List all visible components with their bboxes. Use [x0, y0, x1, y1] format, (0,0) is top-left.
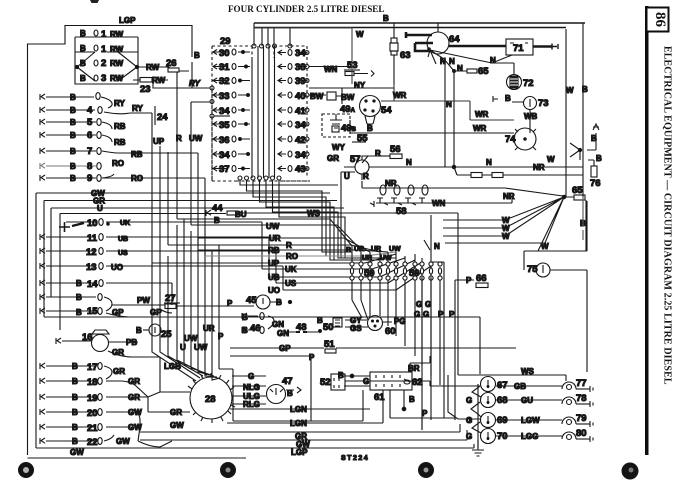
- wire WR to 74: [350, 120, 514, 133]
- svg-text:RB: RB: [114, 122, 126, 131]
- svg-text:G: G: [248, 372, 254, 381]
- svg-text:U: U: [344, 172, 350, 181]
- svg-text:59: 59: [364, 268, 375, 279]
- svg-text:UB: UB: [118, 236, 128, 243]
- svg-text:62: 62: [412, 377, 423, 388]
- wire WR upper: [381, 84, 514, 120]
- svg-text:RLG: RLG: [243, 400, 260, 409]
- connector 48: [296, 322, 307, 333]
- svg-text:GP: GP: [279, 344, 291, 353]
- fuse 53: [344, 60, 374, 77]
- wire P to 61: [390, 390, 444, 418]
- motor 74: [505, 128, 536, 150]
- svg-text:LGP: LGP: [119, 16, 136, 25]
- svg-text:B: B: [409, 395, 415, 404]
- flasher 72: [492, 63, 534, 90]
- sensor 79: [562, 413, 593, 427]
- svg-text:P: P: [438, 310, 444, 319]
- svg-text:8: 8: [87, 161, 92, 172]
- svg-text:37: 37: [219, 164, 230, 175]
- wire WS continuation: [330, 213, 458, 375]
- punch hole top partial: [90, 0, 99, 3]
- svg-text:GR: GR: [170, 408, 182, 417]
- svg-text:R: R: [346, 247, 351, 254]
- svg-text:57: 57: [350, 154, 361, 165]
- svg-text:77: 77: [576, 378, 587, 389]
- wire RY bus upper: [153, 82, 211, 88]
- terminal 15 rows GP: [40, 293, 124, 317]
- svg-text:P: P: [422, 409, 428, 418]
- svg-text:36: 36: [219, 135, 230, 146]
- svg-text:14: 14: [87, 279, 98, 290]
- lamp 46 rows: [242, 313, 289, 338]
- svg-text:ELECTRICAL EQUIPMENT — CIRCUIT: ELECTRICAL EQUIPMENT — CIRCUIT DIAGRAM 2…: [662, 46, 673, 385]
- svg-text:UW: UW: [389, 246, 401, 253]
- fuse 23: [140, 76, 166, 95]
- wire GW bus: [36, 193, 330, 448]
- svg-text:PB: PB: [126, 338, 137, 347]
- svg-text:B: B: [276, 298, 282, 307]
- svg-text:GU: GU: [521, 396, 533, 405]
- wire P lower: [230, 356, 311, 421]
- svg-text:1: 1: [101, 29, 107, 40]
- wire U bus: [51, 208, 344, 297]
- glowplugs 58: [370, 185, 430, 217]
- connector block 29 outline (dashed): [212, 46, 252, 181]
- svg-text:34: 34: [219, 106, 230, 117]
- wire GW bottom: [140, 430, 467, 447]
- wire LGN upper: [230, 408, 370, 410]
- svg-text:10: 10: [87, 218, 98, 229]
- svg-text:WS: WS: [521, 367, 535, 376]
- svg-text:66: 66: [476, 273, 487, 284]
- wire N long: [369, 166, 583, 168]
- svg-text:UR: UR: [362, 255, 372, 262]
- wire LGN lower: [227, 390, 383, 423]
- svg-text:44: 44: [212, 203, 223, 214]
- svg-text:LGB: LGB: [164, 362, 181, 371]
- svg-text:UW: UW: [266, 222, 280, 231]
- svg-text:RW: RW: [110, 30, 124, 39]
- svg-text:RO: RO: [131, 174, 143, 183]
- wire NY row: [309, 87, 330, 89]
- svg-text:13: 13: [86, 262, 97, 273]
- svg-text:65: 65: [478, 66, 489, 77]
- svg-text:P: P: [309, 353, 315, 362]
- svg-text:B: B: [80, 29, 86, 38]
- wire LGP bottom: [36, 444, 474, 448]
- wire G chain down: [422, 418, 455, 430]
- svg-text:W: W: [356, 30, 364, 39]
- svg-text:B: B: [72, 437, 78, 446]
- lamp 69: [466, 413, 508, 428]
- terminal 4 rows with RY: [40, 93, 125, 116]
- ground for lamps: [472, 440, 484, 456]
- svg-text:UO: UO: [268, 286, 280, 295]
- svg-text:WY: WY: [332, 143, 346, 152]
- wire NY: [309, 87, 358, 89]
- terminal 11 row UB: [40, 233, 415, 277]
- ignition sw 47: [232, 372, 301, 409]
- svg-text:B: B: [242, 313, 248, 322]
- svg-text:B: B: [136, 326, 142, 335]
- wire PW to fuse 27: [112, 304, 165, 306]
- connector block 34-43 outline dashed: [274, 46, 307, 181]
- connector 29 pins top: [252, 44, 292, 48]
- svg-text:W: W: [547, 155, 555, 164]
- fuse 66: [455, 273, 488, 288]
- svg-text:41: 41: [295, 106, 306, 117]
- merge GW rows: [135, 412, 160, 447]
- svg-text:WB: WB: [524, 112, 538, 121]
- svg-text:B: B: [242, 326, 248, 335]
- svg-text:G: G: [416, 300, 422, 309]
- svg-text:RW: RW: [110, 45, 124, 54]
- svg-text:G: G: [466, 396, 472, 405]
- switch 57: [344, 154, 378, 181]
- fuse 27: [164, 293, 254, 309]
- fan wires into 28: [152, 219, 220, 392]
- svg-text:52: 52: [320, 377, 331, 388]
- svg-text:N: N: [457, 64, 463, 73]
- svg-text:12: 12: [86, 247, 97, 258]
- svg-text:WN: WN: [324, 65, 338, 74]
- svg-text:N: N: [486, 158, 492, 167]
- sidebar page number box 86: [647, 8, 669, 32]
- fan junction 65-2: [445, 185, 586, 251]
- wire LGP top-left step: [28, 26, 193, 456]
- terminal 1 row a: [80, 29, 124, 40]
- lamp 70: [466, 429, 508, 444]
- svg-text:BW: BW: [310, 92, 324, 101]
- svg-text:LGP: LGP: [291, 448, 308, 457]
- wire GB: [496, 385, 562, 387]
- svg-text:RW: RW: [110, 59, 124, 68]
- wire BU row 44: [60, 203, 330, 330]
- svg-text:LGN: LGN: [290, 419, 307, 428]
- svg-text:B: B: [80, 44, 86, 53]
- unit 50: [317, 316, 342, 333]
- border bottom: [28, 457, 247, 459]
- svg-text:34: 34: [295, 120, 306, 131]
- svg-text:B: B: [505, 94, 511, 103]
- punch hole bottom 2: [220, 462, 236, 478]
- wire BW row: [309, 94, 326, 96]
- svg-text:61: 61: [374, 392, 385, 403]
- svg-text:UW: UW: [189, 134, 203, 143]
- svg-text:RB: RB: [268, 246, 280, 255]
- svg-text:7: 7: [87, 146, 92, 157]
- svg-text:B: B: [591, 134, 597, 143]
- band wire UP: [152, 254, 396, 263]
- svg-text:50: 50: [323, 322, 334, 333]
- svg-text:UW: UW: [380, 255, 392, 262]
- wire GR bottom: [140, 412, 460, 432]
- svg-text:NR: NR: [503, 192, 515, 201]
- wire B below 62: [402, 390, 415, 411]
- svg-text:76: 76: [590, 178, 601, 189]
- wires G G P P down: [422, 262, 455, 430]
- svg-text:5: 5: [87, 117, 93, 128]
- svg-text:B: B: [76, 293, 82, 302]
- svg-text:FOUR CYLINDER 2.5 LITRE DIESEL: FOUR CYLINDER 2.5 LITRE DIESEL: [228, 4, 384, 14]
- vertical labels UW UR P U: [180, 324, 224, 352]
- svg-text:86: 86: [652, 12, 668, 28]
- svg-text:G: G: [466, 416, 472, 425]
- svg-text:UR: UR: [269, 234, 281, 243]
- svg-text:WR: WR: [393, 91, 407, 100]
- wire GP long: [44, 313, 480, 374]
- terminal 1 row b: [80, 44, 124, 55]
- svg-text:79: 79: [576, 413, 587, 424]
- terminal 5 row: [40, 117, 126, 131]
- wires fan below connector 29: [240, 180, 396, 260]
- wire W vertical left: [254, 28, 352, 85]
- svg-text:B: B: [70, 131, 76, 140]
- svg-text:20: 20: [87, 408, 98, 419]
- fuse 76: [588, 160, 601, 189]
- horn 73: [493, 94, 549, 110]
- zigzag G links: [471, 384, 481, 448]
- svg-text:UK: UK: [120, 220, 130, 227]
- wire to 74 from B arrow: [587, 124, 599, 150]
- svg-text:ST224: ST224: [341, 455, 369, 462]
- relay 49A: [327, 88, 356, 115]
- terminal 19 row: [40, 393, 148, 404]
- labels P P: [438, 310, 455, 319]
- svg-text:RY: RY: [114, 99, 125, 108]
- svg-text:33: 33: [219, 91, 230, 102]
- svg-text:GN: GN: [272, 320, 284, 329]
- band wire RB: [198, 250, 388, 252]
- svg-text:RO: RO: [286, 252, 298, 261]
- svg-text:B: B: [383, 14, 389, 23]
- svg-text:RY: RY: [189, 79, 201, 88]
- band wire R: [168, 152, 380, 252]
- svg-text:UP: UP: [153, 137, 165, 146]
- labels above chains R UR UR UW: [346, 246, 401, 262]
- connector 52: [320, 374, 345, 390]
- wire N vertical: [445, 64, 454, 167]
- svg-text:59: 59: [409, 268, 420, 279]
- svg-text:B: B: [367, 124, 373, 133]
- sidebar vertical rule: [645, 6, 649, 455]
- wire GP lower with fuse 51: [230, 339, 516, 353]
- svg-text:B: B: [70, 162, 76, 171]
- svg-text:28: 28: [205, 394, 216, 405]
- connector 29 bottom pins row: [238, 176, 281, 180]
- terminal 6 row: [40, 130, 126, 147]
- punch hole bottom 1: [18, 462, 34, 478]
- terminal 17 row: [40, 362, 125, 379]
- svg-text:P: P: [227, 299, 233, 308]
- junction N: [452, 165, 455, 168]
- svg-text:23: 23: [140, 84, 151, 95]
- connector block right rows 34-43: [278, 48, 309, 175]
- svg-text:LGW: LGW: [521, 416, 540, 425]
- fuse box 61 62: [370, 364, 423, 403]
- svg-text:WR: WR: [473, 124, 487, 133]
- svg-text:BW: BW: [341, 93, 355, 102]
- fuse 65 top: [444, 59, 489, 77]
- svg-text:35: 35: [219, 120, 230, 131]
- heater 75: [524, 201, 587, 372]
- svg-text:34: 34: [219, 150, 230, 161]
- wires into lamp cluster: [434, 370, 480, 420]
- svg-text:GS: GS: [350, 324, 362, 333]
- fuse 24: [155, 106, 168, 125]
- svg-text:65: 65: [572, 185, 583, 196]
- terminal 18 row: [40, 377, 140, 388]
- svg-text:B: B: [596, 154, 602, 163]
- svg-text:GW: GW: [170, 421, 184, 430]
- wire LGG: [496, 435, 562, 437]
- svg-text:RB: RB: [114, 138, 126, 147]
- svg-text:B: B: [194, 51, 200, 60]
- wire GR from 16: [108, 351, 160, 392]
- svg-text:R: R: [375, 149, 381, 158]
- svg-text:UR: UR: [371, 246, 381, 253]
- lamp 25: [136, 324, 172, 340]
- svg-text:N: N: [406, 158, 412, 167]
- punch hole bottom 3: [418, 462, 434, 478]
- band wire UW2: [191, 225, 361, 250]
- wires W W W: [445, 220, 538, 250]
- svg-text:19: 19: [87, 393, 98, 404]
- svg-text:US: US: [285, 279, 297, 288]
- svg-text:42: 42: [295, 135, 306, 146]
- svg-text:56: 56: [390, 144, 401, 155]
- svg-text:B: B: [80, 59, 86, 68]
- sensor 77: [562, 378, 593, 392]
- svg-text:LGN: LGN: [290, 405, 307, 414]
- svg-text:9: 9: [87, 173, 92, 184]
- lamps cluster 67-70: [466, 377, 508, 457]
- terminal 22 row: [40, 435, 130, 448]
- svg-text:W: W: [541, 242, 549, 251]
- terminal 9 row with RO bus: [40, 173, 205, 256]
- svg-text:WS: WS: [307, 209, 321, 218]
- svg-text:6: 6: [87, 130, 92, 141]
- svg-text:W: W: [502, 232, 510, 241]
- svg-text:NR: NR: [533, 163, 545, 172]
- svg-text:PW: PW: [137, 296, 150, 305]
- wire drop to connector 29: [254, 23, 290, 46]
- band wire UR: [198, 238, 370, 252]
- svg-text:30: 30: [219, 48, 230, 59]
- svg-text:G: G: [466, 432, 472, 441]
- svg-text:43: 43: [295, 164, 306, 175]
- svg-text:64: 64: [449, 34, 460, 45]
- distributor cap detail 64: [437, 23, 439, 32]
- svg-text:GW: GW: [70, 448, 84, 457]
- svg-text:39: 39: [295, 76, 306, 87]
- svg-text:GN: GN: [277, 329, 289, 338]
- svg-text:1: 1: [101, 44, 107, 55]
- wire RW fuse 23 branch: [133, 79, 168, 81]
- svg-text:4: 4: [87, 105, 93, 116]
- svg-text:GR: GR: [128, 393, 140, 402]
- svg-text:27: 27: [165, 293, 176, 304]
- wire GN to 48: [286, 331, 318, 333]
- svg-text:40: 40: [295, 91, 306, 102]
- svg-text:18: 18: [87, 377, 98, 388]
- wire U vertical to 57: [341, 172, 355, 258]
- svg-text:UR: UR: [354, 246, 364, 253]
- svg-text:RW: RW: [152, 76, 166, 85]
- svg-text:G: G: [414, 310, 420, 319]
- wire corner 191: [191, 102, 210, 225]
- svg-text:B: B: [70, 118, 76, 127]
- svg-text:51: 51: [324, 339, 335, 350]
- terminal 21 row: [40, 423, 142, 434]
- svg-text:PG: PG: [394, 317, 406, 326]
- svg-text:74: 74: [505, 134, 516, 145]
- svg-text:21: 21: [87, 423, 98, 434]
- svg-text:BU: BU: [235, 210, 247, 219]
- svg-text:LGG: LGG: [521, 432, 538, 441]
- svg-text:UW: UW: [184, 334, 198, 343]
- svg-text:UK: UK: [285, 265, 297, 274]
- svg-text:GR: GR: [128, 377, 140, 386]
- wire WS to 77: [458, 375, 566, 381]
- svg-text:22: 22: [87, 437, 98, 448]
- svg-text:P: P: [466, 276, 472, 285]
- label N above chain: [424, 240, 440, 251]
- wire P down to 61: [219, 245, 363, 421]
- svg-text:15: 15: [87, 306, 98, 317]
- svg-text:B: B: [72, 423, 78, 432]
- svg-text:W: W: [566, 86, 574, 95]
- terminal 2 row: [80, 58, 124, 69]
- svg-text:N: N: [434, 242, 440, 251]
- wire GU: [496, 399, 562, 401]
- svg-text:B: B: [72, 362, 78, 371]
- wire NR long: [362, 181, 563, 196]
- wire WN from connector to 58: [430, 196, 512, 203]
- svg-text:38: 38: [295, 62, 306, 73]
- sensor 80: [562, 428, 593, 442]
- wire GR bus: [44, 201, 337, 318]
- wire RW to fuse 26: [138, 67, 169, 68]
- wire RY lower: [104, 112, 152, 263]
- svg-text:49B: 49B: [341, 123, 357, 134]
- svg-text:46: 46: [250, 323, 261, 334]
- svg-text:31: 31: [219, 62, 230, 73]
- svg-text:34: 34: [295, 150, 306, 161]
- terminal 3 row: [80, 73, 124, 84]
- svg-text:25: 25: [161, 329, 172, 340]
- svg-text:B: B: [76, 308, 82, 317]
- svg-text:B: B: [338, 371, 344, 380]
- svg-text:G: G: [423, 310, 429, 319]
- terminal 20 row: [40, 408, 142, 419]
- svg-text:R: R: [286, 241, 292, 250]
- terminal 10 row UK: [59, 218, 405, 269]
- svg-text:B: B: [214, 216, 220, 225]
- svg-text:60: 60: [385, 326, 396, 337]
- lamp 67: [481, 377, 508, 392]
- wire UP vertical: [153, 137, 172, 313]
- label R vertical: [176, 134, 203, 143]
- svg-text:2: 2: [101, 58, 106, 69]
- band wire RO: [205, 252, 396, 256]
- svg-text:GW: GW: [116, 437, 130, 446]
- wire LGW: [496, 419, 562, 421]
- terminal 8 row: [40, 159, 124, 172]
- svg-text:NLG: NLG: [243, 383, 260, 392]
- svg-text:11: 11: [87, 233, 98, 244]
